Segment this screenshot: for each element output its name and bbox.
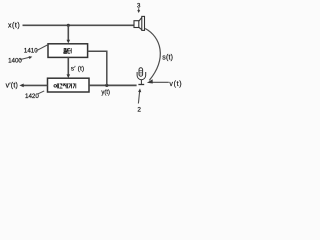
svg-text:1400: 1400	[8, 58, 22, 65]
svg-text:1420: 1420	[25, 93, 39, 100]
svg-text:v(t): v(t)	[169, 81, 182, 88]
svg-text:2: 2	[137, 107, 141, 114]
svg-text:s′ (t): s′ (t)	[71, 65, 85, 72]
svg-text:v′(t): v′(t)	[6, 83, 18, 90]
svg-text:y(t): y(t)	[101, 90, 110, 96]
svg-text:1410: 1410	[24, 48, 38, 55]
svg-text:x(t): x(t)	[8, 23, 20, 30]
svg-text:s(t): s(t)	[162, 54, 173, 61]
